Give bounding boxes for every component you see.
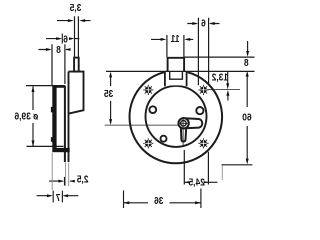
knob bar profile (filled, side view)	[52, 86, 56, 152]
plate top edge line	[26, 85, 65, 87]
svg-text:11: 11	[170, 33, 180, 45]
dimension 7 : extension line from knob bar	[51, 152, 53, 190]
cap top reference line to right (8 upper ref)	[185, 56, 255, 58]
dimension 6 (side view) : arrowheads	[56, 37, 74, 40]
dimension 35 : top tick attach (uses long line) and dim line with arrows	[110, 76, 112, 120]
dimension 13,2 : screw centre reference line	[208, 89, 241, 91]
dimension 6 (front view) : extension lines down to screw	[198, 18, 208, 85]
dimension 24,5 : dim line	[184, 181, 217, 183]
screw bottom-right	[198, 138, 208, 148]
dimension 60 : bottom reference line	[222, 164, 253, 166]
cylinder (latch bolt, side view)	[74, 58, 79, 72]
svg-text:24,5: 24,5	[188, 177, 205, 189]
svg-text:36: 36	[154, 195, 163, 207]
rivet hole upper-right	[196, 107, 203, 114]
dimension 36 : arrowheads	[124, 201, 201, 204]
svg-text:2,5: 2,5	[76, 174, 88, 186]
rivet hole lower	[161, 136, 167, 142]
dimension 7 : ticks	[53, 191, 62, 203]
dimension 8 (right) : lower arrow pointing up, shared with 60 top	[246, 76, 248, 107]
screw top-left	[143, 85, 153, 95]
dimension 24,5 : extension lines	[184, 150, 208, 185]
centre cross inside boss	[178, 118, 188, 128]
latch cap outline	[168, 58, 185, 71]
middle circle (recessed cup)	[146, 86, 207, 147]
stray extension below circle right	[221, 166, 223, 181]
svg-text:13,2: 13,2	[212, 72, 228, 84]
rivet bump upper (side view)	[51, 107, 54, 112]
screw bottom-left	[143, 138, 153, 148]
screw top-right	[198, 85, 208, 95]
svg-text:60: 60	[242, 112, 251, 124]
dimension 13,2 : upper arrow (points down)	[227, 72, 229, 84]
plate front face line	[64, 86, 66, 162]
dimension 3,5 : dim line	[57, 20, 91, 22]
dimension 36 : ticks	[124, 189, 201, 209]
svg-text:35: 35	[103, 88, 113, 100]
plate bottom tick line	[27, 145, 64, 147]
long reference line y=71.4 (circle top / 35 tick / 8-60 ref)	[106, 70, 255, 72]
dimension 7 : arrowheads	[47, 194, 68, 197]
lock body upper block (side view)	[69, 72, 84, 114]
key knob horizontal centre line	[105, 124, 184, 126]
rivet hole upper-left	[149, 106, 156, 113]
dimension 6 (side view) : dim line	[46, 38, 79, 40]
dimension 6 (front view) : dim line	[187, 23, 219, 25]
dimension 3,5 : arrowheads	[68, 19, 85, 22]
dimension 2,5 : arrowheads	[58, 180, 74, 183]
dimension 6 (front view) : arrowheads	[192, 22, 214, 25]
svg-text:6: 6	[63, 34, 68, 46]
svg-text:6: 6	[201, 17, 206, 29]
svg-text:3,5: 3,5	[69, 2, 81, 14]
svg-text:7: 7	[56, 192, 61, 204]
dimension 6 (side view) : tick	[61, 34, 63, 44]
dimension 2,5 : tick	[64, 177, 66, 186]
dimension 2,5 : extension lines (light)	[66, 163, 69, 187]
dimension 8 (side view) : extension lines	[52, 44, 65, 86]
dimension 11 : dim line	[151, 38, 193, 40]
dimension 11 : arrowheads	[161, 38, 191, 41]
svg-text:8: 8	[244, 57, 249, 69]
dimension 36 : dim line	[124, 202, 201, 204]
dimension 11 : extension lines	[167, 35, 184, 57]
rivet bump lower (side view)	[51, 137, 54, 142]
key knob vertical centre line	[182, 117, 184, 147]
plate top thick corner	[53, 85, 65, 87]
dimension o39,6 : dim line with arrows	[32, 86, 34, 146]
key knob inner circle	[181, 121, 187, 127]
key knob wing and tail outline	[181, 118, 202, 141]
latch collar (white cover)	[164, 71, 188, 85]
dimension 8 (side view) : dim line	[39, 49, 71, 51]
dimension 8 (right) : upper arrow pointing down	[247, 41, 249, 52]
key knob boss circle	[178, 118, 188, 128]
latch inner bolt rectangle	[170, 72, 183, 80]
dimension 13,2 : lower arrow (points up)	[227, 95, 229, 101]
dimension 8 (side view) : arrowheads	[46, 48, 71, 51]
latch collar sides	[165, 71, 187, 86]
dimension 2,5 : dim line	[49, 180, 74, 182]
latch cap (white cover)	[167, 57, 185, 72]
svg-text:ø 39,6: ø 39,6	[15, 111, 39, 123]
outer circle (lock face plate)	[130, 71, 223, 164]
svg-text:8: 8	[56, 44, 61, 56]
body lower strip (side view)	[68, 72, 70, 162]
dimension 60 : dim line lower part with arrow down	[246, 126, 248, 160]
dimension 7 : dim line	[37, 195, 79, 197]
foot flange (filled, side view bottom)	[53, 148, 70, 152]
dimension 3,5 : extension lines	[75, 16, 79, 57]
